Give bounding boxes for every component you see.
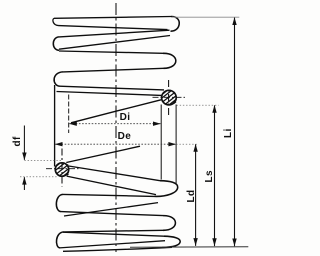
Di right arrow: [153, 122, 161, 126]
top coil bottom edge returning to left tip: [59, 26, 168, 30]
inner left coil edge / Di extension line: [68, 95, 70, 134]
wire back segment R1 to L2: [59, 30, 170, 37]
wire back segment R4 to L4 lower edge: [64, 203, 158, 216]
left circle vertical centerline: [61, 149, 63, 187]
right cap R2: [163, 53, 176, 68]
df upper reference dotted line: [24, 159, 62, 161]
bottom coil inner hairpin line from L5 bottom: [60, 241, 166, 248]
dimension line Ld: [195, 144, 197, 246]
df lower reference dotted line: [20, 176, 57, 178]
svg-text:Di: Di: [120, 112, 131, 123]
left outer silhouette vertical edge: [54, 85, 56, 167]
svg-text:Li: Li: [223, 128, 234, 138]
wire front segment L4 to R5: [61, 212, 163, 216]
dimension line Ls: [214, 105, 216, 246]
spring axis centerline: [115, 3, 117, 252]
wire lower edge under R1 to L2 bottom: [59, 36, 170, 50]
svg-text:De: De: [118, 131, 132, 142]
right circle vertical centerline: [168, 80, 170, 116]
bottom end cap R6 (ground): [162, 236, 180, 247]
top coil right cap R1: [171, 16, 180, 31]
svg-text:df: df: [12, 136, 23, 147]
dimension Di line: [69, 123, 160, 125]
bottom coil top edge L5 to end cap R6: [63, 232, 164, 236]
svg-text:Ld: Ld: [186, 189, 197, 202]
left cap L3: [54, 72, 63, 86]
wire front edge L3 to section circle top: [60, 86, 165, 90]
wire cross-section circle (left, cut): [55, 163, 68, 177]
wire cross-section circle (right, cut): [162, 90, 177, 105]
Ls reference dotted line: [177, 104, 219, 106]
front segment left circle to R4 upper edge: [69, 166, 160, 181]
top coil top edge (ground flat): [54, 17, 171, 19]
front segment left circle to R4 lower edge: [67, 176, 156, 195]
wire back segment R5 to L5: [64, 230, 163, 232]
inner right coil edge vertical / Di-De extension: [160, 105, 162, 180]
wire front segment L2 to R2: [59, 51, 163, 53]
back half-coil upper edge from section circle going down-left: [71, 100, 161, 123]
De to Ld dotted continuation: [176, 143, 198, 145]
wire back segment R2 to L3: [63, 68, 164, 72]
Di left arrow: [69, 122, 77, 126]
De right arrow: [168, 142, 176, 146]
outer right coil edge vertical / De extension: [175, 105, 177, 185]
df dimension upper line with down arrow: [23, 126, 25, 160]
bottom coil bottom edge merging into ground base: [63, 247, 172, 251]
top coil left tip cap L1: [53, 18, 59, 25]
left cap L2: [53, 37, 59, 50]
left circle horizontal centerline: [46, 168, 80, 170]
right cap R5: [163, 216, 175, 231]
wire back segment R4 to L4 upper edge: [63, 194, 154, 196]
left cap L4: [56, 194, 63, 211]
wire lower edge left silhouette to section circle: [57, 92, 162, 96]
bottom ground baseline: [130, 246, 248, 248]
dimension De line: [55, 143, 176, 145]
top reference line to Li: [172, 16, 239, 18]
svg-text:Ls: Ls: [204, 170, 215, 183]
back half-coil lower edge from left circle rising right: [66, 146, 140, 162]
right circle horizontal centerline: [153, 96, 186, 98]
right cap R4: [154, 181, 178, 197]
dimension line Li: [234, 18, 236, 247]
df dimension lower line with up arrow: [23, 177, 25, 190]
left cap L5: [56, 232, 64, 248]
De left arrow: [55, 142, 63, 146]
